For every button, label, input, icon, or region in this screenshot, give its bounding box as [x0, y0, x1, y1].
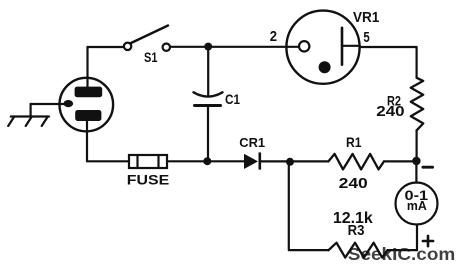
svg-text:240: 240	[339, 175, 368, 192]
svg-text:SeekIC.com: SeekIC.com	[348, 244, 456, 264]
svg-text:240: 240	[376, 103, 404, 120]
svg-text:VR1: VR1	[353, 10, 379, 26]
svg-text:C1: C1	[225, 92, 240, 107]
svg-text:5: 5	[363, 29, 369, 46]
svg-text:2: 2	[270, 28, 277, 45]
svg-text:R1: R1	[346, 134, 362, 150]
svg-text:S1: S1	[144, 49, 158, 65]
svg-text:FUSE: FUSE	[127, 172, 169, 187]
svg-text:mA: mA	[407, 198, 427, 213]
svg-text:R3: R3	[348, 223, 365, 239]
svg-text:CR1: CR1	[239, 135, 265, 150]
